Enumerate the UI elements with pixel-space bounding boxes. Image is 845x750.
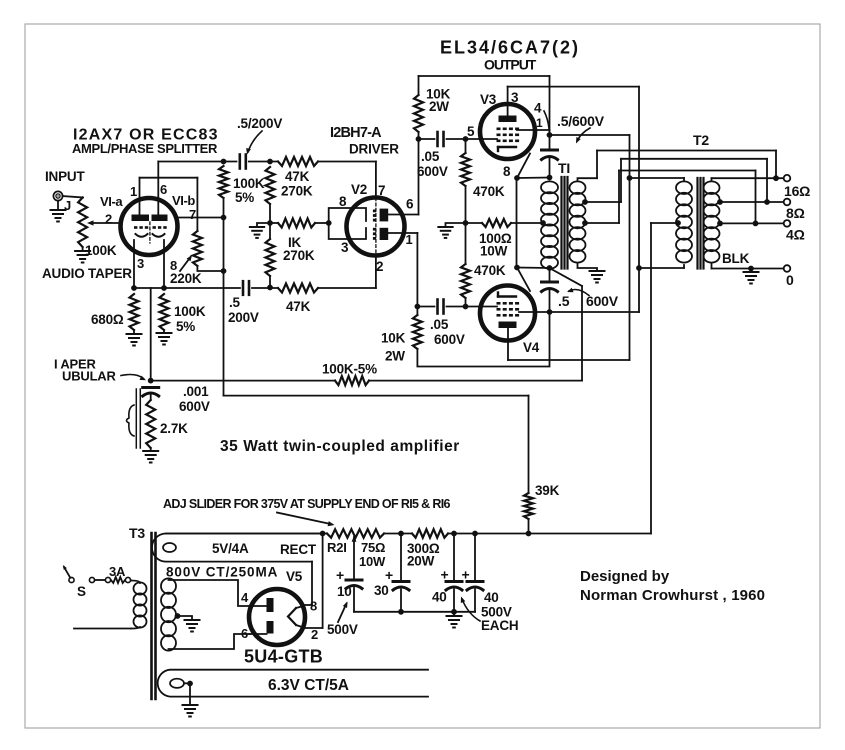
svg-text:600V: 600V [434, 332, 465, 347]
svg-text:4: 4 [534, 101, 542, 116]
svg-text:100K: 100K [85, 243, 117, 258]
svg-text:0: 0 [786, 272, 794, 288]
svg-text:5%: 5% [176, 319, 195, 334]
svg-text:220K: 220K [170, 271, 202, 286]
svg-text:.5: .5 [229, 295, 241, 310]
svg-text:EL34/6CA7(2): EL34/6CA7(2) [440, 38, 580, 58]
svg-text:35 Watt twin-coupled amplifier: 35 Watt twin-coupled amplifier [220, 438, 460, 455]
svg-text:.001: .001 [183, 384, 209, 399]
svg-text:5U4-GTB: 5U4-GTB [244, 647, 323, 667]
svg-text:7: 7 [378, 183, 385, 198]
svg-text:6: 6 [160, 182, 167, 197]
svg-text:AUDIO TAPER: AUDIO TAPER [42, 266, 132, 281]
svg-text:T3: T3 [129, 525, 145, 541]
svg-text:20W: 20W [407, 554, 435, 569]
svg-text:2W: 2W [385, 349, 405, 364]
svg-text:16Ω: 16Ω [784, 183, 810, 199]
svg-text:VI-a: VI-a [100, 194, 123, 209]
svg-text:DRIVER: DRIVER [349, 142, 399, 157]
svg-text:.05: .05 [430, 317, 449, 332]
svg-text:6: 6 [406, 197, 414, 212]
svg-text:2W: 2W [429, 99, 449, 114]
svg-text:3: 3 [511, 90, 519, 105]
svg-text:RECT: RECT [280, 542, 317, 557]
svg-text:3: 3 [341, 240, 349, 255]
svg-text:.5/200V: .5/200V [237, 116, 282, 131]
svg-text:I2BH7-A: I2BH7-A [330, 125, 382, 141]
svg-text:500V: 500V [327, 622, 358, 637]
svg-text:600V: 600V [417, 164, 448, 179]
svg-text:.5/600V: .5/600V [557, 113, 605, 129]
svg-text:47K: 47K [286, 299, 311, 314]
svg-text:Norman Crowhurst , 1960: Norman Crowhurst , 1960 [580, 587, 765, 604]
svg-text:40: 40 [432, 590, 447, 605]
svg-text:800V CT/250MA: 800V CT/250MA [166, 565, 278, 580]
svg-text:200V: 200V [228, 310, 259, 325]
svg-text:.5: .5 [558, 293, 570, 309]
svg-text:ADJ SLIDER FOR 375V AT SUPPLY: ADJ SLIDER FOR 375V AT SUPPLY END OF RI5… [163, 497, 451, 511]
svg-text:3A: 3A [109, 564, 126, 579]
svg-text:6: 6 [241, 626, 248, 641]
svg-text:10W: 10W [480, 244, 508, 259]
svg-text:470K: 470K [474, 263, 506, 278]
svg-text:7: 7 [189, 207, 196, 222]
svg-text:100K: 100K [174, 304, 206, 319]
svg-text:INPUT: INPUT [45, 169, 85, 184]
svg-text:600V: 600V [179, 399, 210, 414]
svg-text:100K-5%: 100K-5% [322, 362, 377, 377]
svg-text:8: 8 [310, 599, 317, 614]
svg-text:V5: V5 [286, 569, 303, 584]
svg-text:T2: T2 [693, 132, 709, 148]
svg-text:2.7K: 2.7K [160, 421, 188, 436]
svg-text:680Ω: 680Ω [91, 312, 124, 327]
svg-text:270K: 270K [283, 248, 315, 263]
svg-text:10W: 10W [359, 554, 386, 569]
svg-text:+: + [441, 567, 449, 583]
svg-text:J: J [64, 198, 71, 213]
svg-text:40: 40 [484, 590, 499, 605]
svg-text:8Ω: 8Ω [786, 205, 805, 221]
svg-text:Designed by: Designed by [580, 568, 670, 585]
svg-text:2: 2 [376, 259, 383, 274]
svg-text:BLK: BLK [722, 251, 750, 266]
svg-text:AMPL/PHASE SPLITTER: AMPL/PHASE SPLITTER [72, 141, 218, 156]
svg-text:75Ω: 75Ω [361, 540, 385, 555]
svg-text:600V: 600V [586, 293, 619, 309]
svg-text:10K: 10K [381, 331, 406, 346]
svg-text:10: 10 [337, 584, 352, 599]
svg-text:V4: V4 [523, 340, 540, 355]
svg-text:R2I: R2I [327, 540, 347, 555]
svg-text:V2: V2 [351, 182, 367, 197]
svg-text:OUTPUT: OUTPUT [484, 57, 537, 73]
svg-text:4Ω: 4Ω [786, 227, 805, 243]
svg-text:270K: 270K [281, 184, 313, 199]
svg-text:+: + [336, 567, 344, 583]
svg-text:30: 30 [374, 583, 389, 598]
svg-text:47K: 47K [285, 169, 310, 184]
svg-text:+: + [385, 567, 393, 583]
svg-text:3: 3 [137, 256, 144, 271]
svg-text:8: 8 [170, 258, 177, 273]
svg-text:5%: 5% [235, 190, 254, 205]
svg-text:5: 5 [467, 124, 475, 139]
svg-text:EACH: EACH [481, 618, 518, 633]
svg-text:2: 2 [105, 212, 112, 227]
svg-text:VI-b: VI-b [172, 193, 195, 208]
svg-text:39K: 39K [535, 483, 560, 498]
svg-text:TI: TI [558, 160, 570, 176]
svg-text:6.3V CT/5A: 6.3V CT/5A [268, 677, 349, 694]
svg-text:100K: 100K [233, 176, 265, 191]
svg-text:S: S [77, 584, 86, 599]
svg-text:1: 1 [130, 184, 137, 199]
svg-text:8: 8 [503, 164, 511, 179]
svg-text:.05: .05 [421, 149, 440, 164]
svg-text:1: 1 [536, 116, 543, 130]
svg-text:5V/4A: 5V/4A [212, 541, 249, 556]
svg-text:V3: V3 [480, 92, 497, 107]
svg-text:2: 2 [311, 627, 318, 642]
svg-text:1: 1 [406, 232, 413, 247]
svg-text:8: 8 [339, 194, 347, 209]
svg-text:4: 4 [241, 590, 249, 605]
svg-text:+: + [462, 567, 470, 583]
svg-text:UBULAR: UBULAR [62, 369, 116, 384]
svg-text:470K: 470K [473, 184, 505, 199]
